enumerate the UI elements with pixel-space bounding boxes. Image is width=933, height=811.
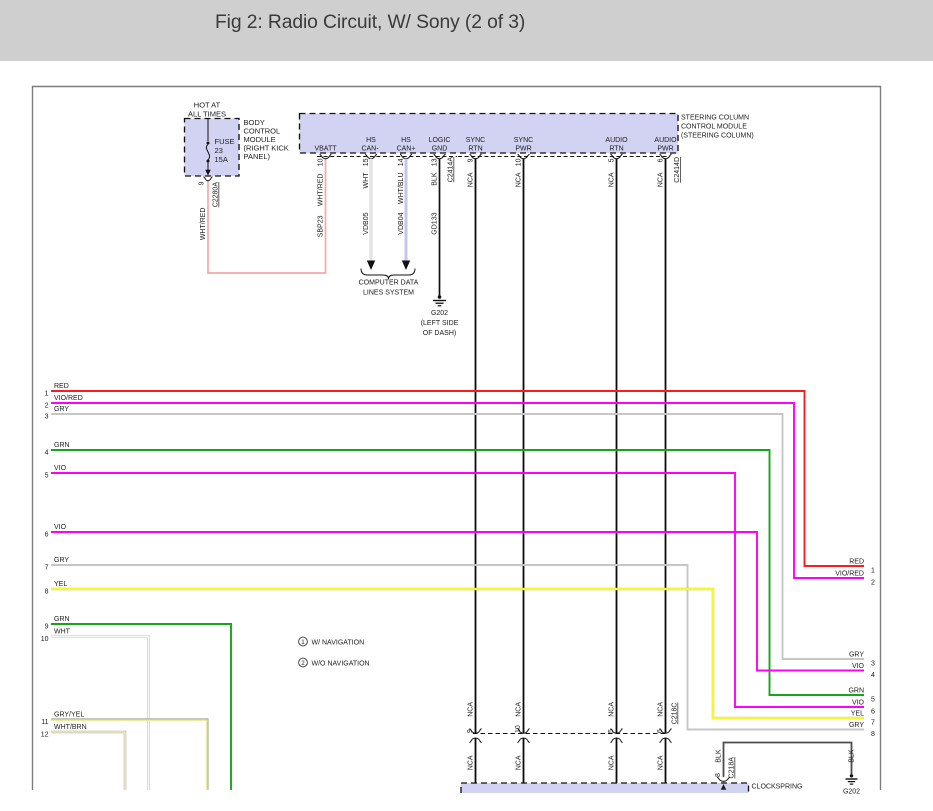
svg-text:23: 23 xyxy=(215,146,223,155)
wire GRY/YEL circuit 11 xyxy=(41,712,208,791)
svg-text:LINES SYSTEM: LINES SYSTEM xyxy=(363,290,414,297)
wire BLK to ground G202 (right) xyxy=(716,743,856,778)
svg-text:5: 5 xyxy=(609,158,616,162)
svg-text:WHT/RED: WHT/RED xyxy=(318,174,325,207)
connector C218C pin 9 (SYNC RTN) xyxy=(467,729,482,743)
svg-text:NCA: NCA xyxy=(516,755,523,770)
svg-text:7: 7 xyxy=(871,720,875,727)
svg-text:CLOCKSPRING: CLOCKSPRING xyxy=(752,784,803,791)
svg-text:G202: G202 xyxy=(431,310,448,317)
svg-text:VIO: VIO xyxy=(852,663,865,670)
power feed label HOT AT ALL TIMES xyxy=(188,101,226,119)
svg-text:WHT: WHT xyxy=(363,172,370,189)
svg-text:6: 6 xyxy=(45,532,49,539)
svg-text:OF DASH): OF DASH) xyxy=(423,330,456,337)
svg-text:WHT/BLU: WHT/BLU xyxy=(398,173,405,205)
wire WHT/BLU VDB04 (HS CAN+) xyxy=(398,159,410,270)
pin 5 AUDIO RTN xyxy=(609,154,623,162)
svg-text:6: 6 xyxy=(658,158,665,162)
svg-text:SYNC: SYNC xyxy=(466,137,485,144)
wire WHT VDB05 (HS CAN-) xyxy=(363,159,375,270)
svg-text:PWR: PWR xyxy=(515,146,531,153)
connector C218C pin 10 (SYNC PWR) xyxy=(515,725,530,742)
wire VIO circuit 5 xyxy=(45,465,875,716)
svg-text:LOGIC: LOGIC xyxy=(429,137,451,144)
header bar xyxy=(0,0,933,61)
svg-text:5: 5 xyxy=(45,473,49,480)
svg-text:SYNC: SYNC xyxy=(514,137,533,144)
svg-text:WHT/BRN: WHT/BRN xyxy=(54,724,87,731)
svg-text:9: 9 xyxy=(468,158,475,162)
svg-text:VIO: VIO xyxy=(54,524,67,531)
wire RED circuit 1 xyxy=(45,383,875,575)
node COMPUTER DATA LINES SYSTEM (brace) xyxy=(359,269,419,297)
svg-text:4: 4 xyxy=(45,450,49,457)
svg-text:BLK: BLK xyxy=(432,172,439,186)
svg-text:GRY: GRY xyxy=(54,406,69,413)
svg-text:VDB05: VDB05 xyxy=(363,212,370,234)
pin 9 SYNC RTN xyxy=(468,154,482,162)
svg-text:GRN: GRN xyxy=(54,442,70,449)
legend note 1 W/ NAVIGATION xyxy=(299,637,365,646)
connector C2414A (pins 10,15,14,13) xyxy=(317,157,457,183)
svg-text:CAN-: CAN- xyxy=(361,146,379,153)
svg-text:6: 6 xyxy=(871,709,875,716)
svg-text:NCA: NCA xyxy=(468,755,475,770)
svg-text:GRN: GRN xyxy=(54,616,70,623)
wire NCA (AUDIO RTN) lower xyxy=(609,738,620,790)
connector C2414D (pins 9,10,5,6) xyxy=(458,157,681,183)
svg-text:NCA: NCA xyxy=(609,755,616,770)
connector C218C inline connector xyxy=(473,703,679,734)
svg-text:3: 3 xyxy=(871,661,875,668)
svg-text:Fig 2: Radio Circuit, W/ Sony: Fig 2: Radio Circuit, W/ Sony (2 of 3) xyxy=(215,12,525,33)
connector C2280A pin 9 at fuse box exit xyxy=(199,177,220,207)
svg-text:WHT: WHT xyxy=(54,629,71,636)
svg-text:HS: HS xyxy=(401,137,411,144)
connector C218C pin 6 (AUDIO PWR) xyxy=(657,729,672,743)
ground G202 (left side of dash) xyxy=(421,295,459,337)
wire VIO/RED circuit 2 xyxy=(45,395,875,587)
svg-text:9: 9 xyxy=(467,729,474,733)
svg-text:(LEFT SIDE: (LEFT SIDE xyxy=(421,320,459,327)
pin 13 LOGIC GND xyxy=(432,154,446,166)
wire NCA (AUDIO RTN) upper xyxy=(609,159,617,733)
svg-text:VIO/RED: VIO/RED xyxy=(54,395,83,402)
svg-text:8: 8 xyxy=(45,589,49,596)
svg-text:10: 10 xyxy=(515,725,522,733)
svg-text:(STEERING COLUMN): (STEERING COLUMN) xyxy=(681,133,754,140)
svg-text:SBP23: SBP23 xyxy=(318,215,325,237)
wire BLK GD133 (LOGIC GND) xyxy=(432,159,440,296)
svg-text:GRY: GRY xyxy=(54,557,69,564)
svg-text:GD133: GD133 xyxy=(432,212,439,234)
svg-text:NCA: NCA xyxy=(609,702,616,717)
svg-text:STEERING COLUMN: STEERING COLUMN xyxy=(681,115,749,122)
pin 15 HS CAN- xyxy=(363,154,377,166)
pin 10 VBATT xyxy=(318,154,332,166)
svg-text:VDB04: VDB04 xyxy=(398,212,405,234)
svg-text:11: 11 xyxy=(41,719,48,726)
svg-text:VBATT: VBATT xyxy=(314,146,337,153)
svg-text:W/O NAVIGATION: W/O NAVIGATION xyxy=(312,661,370,668)
svg-text:PANEL): PANEL) xyxy=(244,152,271,161)
svg-text:NCA: NCA xyxy=(609,172,616,187)
legend note 2 W/O NAVIGATION xyxy=(299,658,370,667)
wire WHT/BRN circuit 12 xyxy=(41,724,125,790)
connector C218C pin 5 (AUDIO RTN) xyxy=(608,729,623,743)
svg-text:C218A: C218A xyxy=(729,757,736,779)
svg-text:NCA: NCA xyxy=(468,172,475,187)
svg-text:1: 1 xyxy=(871,568,875,575)
svg-text:GRY: GRY xyxy=(849,722,864,729)
svg-text:14: 14 xyxy=(398,158,405,166)
svg-text:10: 10 xyxy=(516,158,523,166)
svg-text:4: 4 xyxy=(871,672,875,679)
svg-text:FUSE: FUSE xyxy=(215,137,235,146)
svg-text:RTN: RTN xyxy=(609,146,623,153)
module U1 steering column control module box xyxy=(300,114,679,154)
svg-text:9: 9 xyxy=(45,624,49,631)
svg-text:13: 13 xyxy=(432,158,439,166)
fuse box (battery junction box) xyxy=(185,119,240,177)
svg-text:CONTROL MODULE: CONTROL MODULE xyxy=(681,124,747,131)
module label STEERING COLUMN CONTROL MODULE xyxy=(681,115,754,140)
fuse F23 15A xyxy=(205,119,234,176)
svg-text:VIO: VIO xyxy=(54,465,67,472)
pin 10 SYNC PWR xyxy=(516,154,530,166)
svg-text:PWR: PWR xyxy=(657,146,673,153)
wire GRY circuit 3 xyxy=(45,406,875,668)
svg-text:8: 8 xyxy=(871,731,875,738)
svg-text:2: 2 xyxy=(45,403,49,410)
svg-text:BLK: BLK xyxy=(716,749,723,763)
svg-text:NCA: NCA xyxy=(658,755,665,770)
svg-text:NCA: NCA xyxy=(658,702,665,717)
pin 6 AUDIO PWR xyxy=(658,154,672,162)
wire VIO circuit 6 xyxy=(45,524,875,679)
svg-text:RTN: RTN xyxy=(468,146,482,153)
wire GRN circuit 9 xyxy=(45,616,231,790)
svg-text:15: 15 xyxy=(363,158,370,166)
svg-text:9: 9 xyxy=(199,181,206,185)
svg-text:BLK: BLK xyxy=(849,749,856,763)
wire YEL circuit 8 xyxy=(45,581,875,727)
wire WHT circuit 10 xyxy=(41,629,149,791)
svg-text:C2414A: C2414A xyxy=(448,157,455,183)
svg-text:HOT AT: HOT AT xyxy=(194,101,221,110)
svg-text:GRY/YEL: GRY/YEL xyxy=(54,712,84,719)
svg-text:5: 5 xyxy=(608,729,615,733)
svg-text:C2414D: C2414D xyxy=(674,157,681,183)
svg-text:10: 10 xyxy=(41,636,49,643)
svg-text:CAN+: CAN+ xyxy=(397,146,416,153)
svg-text:12: 12 xyxy=(41,732,49,739)
svg-text:NCA: NCA xyxy=(468,702,475,717)
ground G202 (bottom right) xyxy=(843,774,860,795)
svg-text:YEL: YEL xyxy=(54,581,67,588)
module label BODY CONTROL MODULE (RIGHT KICK PANEL) xyxy=(244,118,289,161)
wire GRN circuit 4 xyxy=(45,442,875,704)
svg-text:VIO: VIO xyxy=(852,700,865,707)
svg-text:C2280A: C2280A xyxy=(213,182,220,208)
wire NCA (AUDIO PWR) upper xyxy=(658,159,666,733)
svg-text:6: 6 xyxy=(657,729,664,733)
svg-text:C218C: C218C xyxy=(672,703,679,725)
svg-text:AUDIO: AUDIO xyxy=(654,137,677,144)
wire GRY circuit 7 xyxy=(45,557,875,738)
wire WHT/RED SBP23 from fuse to VBATT xyxy=(200,159,326,274)
svg-text:RED: RED xyxy=(54,383,69,390)
svg-text:NCA: NCA xyxy=(516,702,523,717)
svg-text:WHT/RED: WHT/RED xyxy=(200,208,207,241)
svg-text:1: 1 xyxy=(45,391,49,398)
svg-text:GRY: GRY xyxy=(849,652,864,659)
svg-text:HS: HS xyxy=(366,137,376,144)
svg-text:5: 5 xyxy=(871,697,875,704)
svg-text:YEL: YEL xyxy=(851,711,864,718)
svg-text:2: 2 xyxy=(301,660,305,667)
svg-text:COMPUTER DATA: COMPUTER DATA xyxy=(359,280,419,287)
svg-text:10: 10 xyxy=(318,158,325,166)
svg-text:7: 7 xyxy=(45,565,49,572)
wire NCA (SYNC PWR) upper xyxy=(516,159,524,733)
wire NCA (SYNC RTN) upper xyxy=(468,159,476,733)
wire NCA (AUDIO PWR) lower xyxy=(658,738,669,790)
svg-text:G202: G202 xyxy=(843,789,860,796)
wire NCA (SYNC RTN) lower xyxy=(468,738,479,790)
svg-text:AUDIO: AUDIO xyxy=(605,137,628,144)
svg-text:GRN: GRN xyxy=(848,688,864,695)
connector C218A pin 8 at clockspring xyxy=(715,757,736,790)
svg-text:RED: RED xyxy=(849,559,864,566)
module clockspring box xyxy=(461,783,802,793)
svg-text:8: 8 xyxy=(715,773,722,777)
svg-text:VIO/RED: VIO/RED xyxy=(835,571,864,578)
wire NCA (SYNC PWR) lower xyxy=(516,738,527,790)
svg-text:1: 1 xyxy=(301,639,305,646)
svg-text:W/ NAVIGATION: W/ NAVIGATION xyxy=(312,640,365,647)
svg-text:ALL TIMES: ALL TIMES xyxy=(188,110,226,119)
svg-text:3: 3 xyxy=(45,414,49,421)
pin 14 HS CAN+ xyxy=(398,154,412,166)
svg-text:15A: 15A xyxy=(215,155,228,164)
svg-text:GND: GND xyxy=(432,146,448,153)
svg-text:2: 2 xyxy=(871,580,875,587)
svg-text:NCA: NCA xyxy=(658,172,665,187)
svg-text:NCA: NCA xyxy=(516,172,523,187)
